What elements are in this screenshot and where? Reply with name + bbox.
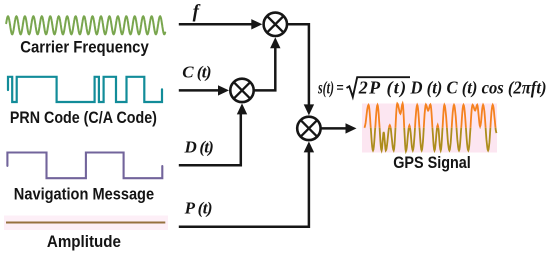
wire f to multiplier M1 <box>179 23 253 26</box>
svg-text:2P (t): 2P (t) <box>358 78 406 99</box>
amplitude highlight band <box>4 216 168 231</box>
wire multiplier M1 output down into multiplier M3 <box>287 24 309 106</box>
carrier frequency sine waveform <box>6 16 165 34</box>
svg-text:s(t): s(t) <box>317 78 334 99</box>
amplitude line <box>6 222 165 224</box>
GPS signal highlight band <box>362 104 497 153</box>
svg-text:D (t): D (t) <box>184 137 214 156</box>
svg-text:f: f <box>193 1 201 22</box>
formula s(t) = sqrt(2P(t)) D(t) C(t) cos(2 pi f t) <box>317 77 546 99</box>
multiplier M1 (f x code) <box>264 13 287 36</box>
wire multiplier M3 output to GPS signal <box>321 127 347 130</box>
GPS signal waveform lower half (olive) <box>364 104 496 152</box>
svg-text:Navigation Message: Navigation Message <box>14 185 154 204</box>
svg-text:P (t): P (t) <box>184 198 213 217</box>
GPS signal waveform upper half (orange) <box>364 104 496 152</box>
multiplier M2 (C x D) <box>230 79 253 102</box>
svg-text:Amplitude: Amplitude <box>47 232 121 251</box>
wire multiplier M2 output up into multiplier M1 <box>254 46 276 90</box>
multiplier M3 (x P) <box>297 117 320 140</box>
radical sign <box>347 77 411 97</box>
navigation message waveform <box>7 153 162 179</box>
svg-text:GPS Signal: GPS Signal <box>393 153 471 172</box>
wire D(t) up into multiplier M2 <box>179 112 241 165</box>
svg-text:PRN Code (C/A Code): PRN Code (C/A Code) <box>10 108 157 127</box>
svg-text:D (t) C (t) cos (2πft): D (t) C (t) cos (2πft) <box>410 78 547 99</box>
PRN code (C/A code) waveform <box>8 77 162 102</box>
svg-text:Carrier Frequency: Carrier Frequency <box>20 37 149 56</box>
svg-text:=: = <box>336 78 344 98</box>
wire P(t) up into multiplier M3 <box>179 150 309 227</box>
wire C(t) to multiplier M2 <box>179 89 219 92</box>
svg-text:C (t): C (t) <box>182 62 211 81</box>
